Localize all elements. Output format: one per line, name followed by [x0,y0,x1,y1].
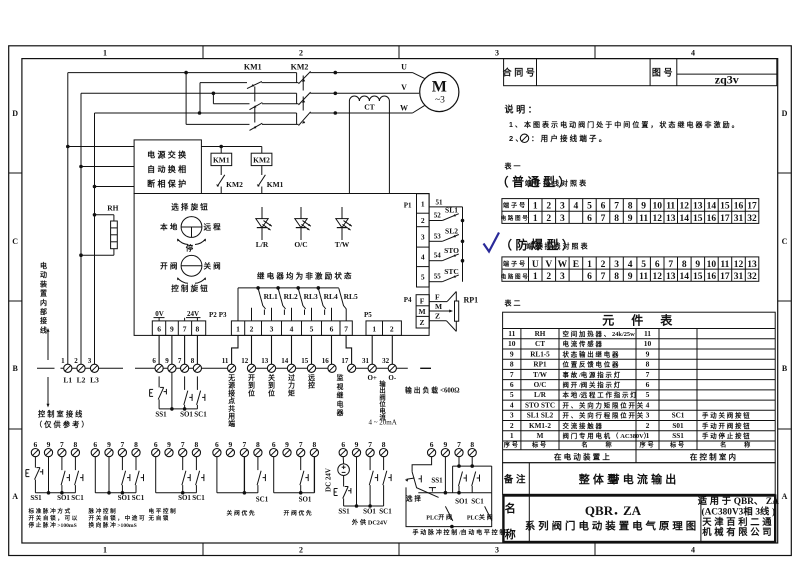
svg-text:线: 线 [40,325,47,334]
svg-text:标号: 标号 [531,441,548,449]
svg-text:24V: 24V [187,310,199,318]
wire limit switch rail [462,207,464,282]
svg-text:停止脉冲>100mS: 停止脉冲>100mS [29,521,77,529]
svg-text:2: 2 [74,357,78,365]
group6 labels [338,508,392,516]
motor M label [432,79,447,106]
group3 open button SO1 [182,457,190,493]
svg-text:6: 6 [215,440,219,449]
svg-text:1: 1 [510,431,514,440]
svg-text:6: 6 [601,202,606,212]
group7 button actuator [429,488,436,492]
svg-text:过: 过 [288,373,295,382]
model QBR ZA [585,503,642,518]
svg-text:SO1: SO1 [180,411,193,419]
contactor coil KM1 [211,153,232,165]
svg-text:称: 称 [744,441,752,449]
svg-text:31: 31 [734,272,744,282]
group7 upper link [453,464,492,492]
svg-text:F: F [420,297,425,306]
svg-text:端: 端 [228,419,235,428]
svg-text:13: 13 [693,202,703,212]
svg-text:称: 称 [606,441,614,449]
group5 label SO1 [299,496,312,504]
svg-text:15: 15 [301,357,309,365]
wire boundary segment d [247,367,336,369]
svg-text:阀: 阀 [379,392,385,401]
svg-text:SS1: SS1 [672,432,684,440]
svg-text:DC 24V: DC 24V [325,468,333,492]
svg-text:31: 31 [362,357,370,365]
svg-text:2: 2 [546,214,551,224]
svg-text:SC1: SC1 [132,494,145,502]
svg-text:O+: O+ [367,374,376,382]
svg-text:CT: CT [364,103,374,112]
svg-text:9: 9 [628,214,633,224]
svg-text:7: 7 [299,440,303,449]
group4 note 关阀优先 [227,509,257,517]
svg-text:内: 内 [40,298,47,307]
svg-text:KM1: KM1 [213,155,230,164]
svg-text:V: V [401,83,407,92]
group7 labels SO1 SC1 [455,498,484,506]
svg-text:2: 2 [250,325,254,334]
svg-text:8: 8 [614,272,619,282]
svg-text:16: 16 [734,202,744,212]
group6 terminals 6 9 7 8 [339,440,388,457]
svg-text:14: 14 [680,272,690,282]
svg-text:表一: 表一 [504,161,523,170]
svg-text:D: D [12,109,18,118]
svg-text:6: 6 [154,440,158,449]
group3 close button SC1 [196,457,204,493]
wire 51 [429,199,462,207]
svg-text:RL2: RL2 [284,292,298,301]
svg-text:点: 点 [228,396,235,405]
svg-text:换向脉冲>100mS: 换向脉冲>100mS [89,521,137,529]
contactor KM1 contact b [250,103,263,110]
wire P3-1 to terminal 11 [232,335,238,364]
svg-text:开关自锁，可以: 开关自锁，可以 [29,514,80,522]
svg-text:L/R: L/R [534,391,547,399]
svg-text:标号: 标号 [669,441,686,449]
svg-text:SO1: SO1 [363,508,376,516]
svg-text:STO STC: STO STC [525,402,555,410]
svg-text:接: 接 [228,388,235,397]
wire subrail 2 [213,93,298,103]
svg-text:7: 7 [668,260,673,270]
svg-text:7: 7 [243,440,247,449]
svg-text:合同号: 合同号 [503,67,538,78]
svg-text:2: 2 [390,325,394,334]
svg-text:关阀: 关阀 [204,260,223,270]
svg-text:SL1: SL1 [445,206,458,215]
svg-text:SC1: SC1 [71,494,84,502]
svg-text:9: 9 [285,440,289,449]
wire subrail 3 [186,73,298,125]
table2 cells [501,260,757,282]
svg-text:端子号: 端子号 [503,260,527,268]
field terminals row [61,357,396,373]
svg-text:5: 5 [421,273,425,282]
indicator lamp L/R [256,207,272,249]
svg-text:7: 7 [60,440,64,449]
svg-text:RH: RH [535,330,546,338]
svg-text:C: C [12,237,18,246]
svg-text:脉冲控制: 脉冲控制 [88,507,118,515]
svg-text:E: E [573,260,579,270]
svg-text:状态输出继电器: 状态输出继电器 [563,349,621,358]
labels SS1 SO1 SC1 (internal) [155,411,207,419]
svg-text:V: V [545,260,552,270]
svg-text:8: 8 [682,260,687,270]
svg-text:8: 8 [382,440,386,449]
group7 bottom bracket [406,487,492,528]
svg-text:电平控制: 电平控制 [149,507,178,515]
node U junctions [184,71,337,75]
svg-text:机械有限公司: 机械有限公司 [702,526,774,537]
close button SC1 (internal) [197,376,205,409]
svg-text:7: 7 [457,440,461,449]
svg-text:PLC关阀: PLC关阀 [467,514,494,522]
group2 wire 9 [108,457,110,493]
note 2 [509,133,608,143]
power box text [147,150,188,189]
label 表二 [504,298,523,307]
svg-text:9: 9 [355,440,359,449]
notes heading 说明 [505,104,540,115]
svg-text:KM1: KM1 [244,63,262,72]
svg-text:KM2: KM2 [291,63,309,72]
group3 labels [178,494,205,502]
svg-text:P3: P3 [219,311,227,319]
svg-text:SC1: SC1 [194,411,207,419]
open button SO1 (internal) [184,376,192,409]
svg-text:SO1: SO1 [118,494,131,502]
label 名称 [505,501,519,541]
svg-text:无: 无 [227,374,235,382]
svg-text:53: 53 [434,232,442,240]
svg-text:Z: Z [435,312,440,321]
group5 wire 6 [273,457,275,493]
svg-text:9: 9 [444,440,448,449]
svg-text:1: 1 [533,272,538,282]
wire L2 feeder [79,93,83,364]
group4 rail [217,491,258,495]
wire P3-7 to terminal 17 [346,335,352,364]
svg-text:9: 9 [628,272,633,282]
arrow control room [47,377,50,408]
svg-text:U: U [401,63,407,72]
blue checkmark [484,233,500,252]
svg-text:阀门专用电机（AC380V）: 阀门专用电机（AC380V） [563,431,652,440]
svg-text:序号: 序号 [639,441,656,449]
svg-text:出: 出 [379,386,385,395]
svg-text:SO1: SO1 [455,498,468,506]
svg-text:6: 6 [646,380,650,389]
svg-text:6: 6 [152,357,156,365]
stop button SS1 (internal) [150,376,167,409]
svg-text:本地/远程工作指示灯: 本地/远程工作指示灯 [563,390,639,399]
svg-text:31: 31 [734,214,744,224]
labels O+ O- [367,374,396,382]
svg-text:标准脉冲方式: 标准脉冲方式 [28,507,72,515]
svg-text:选择旋钮: 选择旋钮 [171,202,210,212]
vertical label 无源接点共用端 [227,374,235,428]
applicability text [698,495,779,518]
svg-text:P5: P5 [364,311,372,319]
group4 wire 6 [216,457,218,493]
connector P4 [404,295,430,328]
svg-text:2: 2 [299,49,303,58]
wire M [429,302,453,313]
svg-text:控制旋钮: 控制旋钮 [171,283,210,293]
svg-text:9: 9 [170,325,174,334]
labels L1 L2 L3 [63,376,99,385]
svg-text:10: 10 [652,202,662,212]
group7 selector arrow [405,478,415,482]
svg-text:13: 13 [666,214,676,224]
relay contact blades RL1-RL5 [258,288,346,309]
svg-text:KM1: KM1 [267,180,284,189]
svg-text:8: 8 [134,440,138,449]
svg-text:电路图号: 电路图号 [501,272,530,280]
connector P3 [219,311,353,335]
remark text 整体型带电流输出 [578,472,680,486]
svg-text:关阀优先: 关阀优先 [227,509,257,517]
svg-text:电: 电 [40,261,47,270]
svg-text:开阀: 开阀 [160,260,179,270]
vertical label 电动装置内部接线 [39,261,47,334]
svg-text:17: 17 [341,357,349,365]
group7 PLC close contact [467,506,494,521]
svg-text:6: 6 [157,325,161,334]
group7 PLC open contact [426,506,453,521]
svg-text:11: 11 [508,329,515,338]
group7 wire 9 [444,457,446,493]
arrow internal wiring [47,328,50,360]
group5 note 开阀优先 [284,509,314,517]
indicator lamp T/W [335,207,352,249]
group6 stop button SS1 [334,476,351,507]
svg-text:空间加热器、24k/25w: 空间加热器、24k/25w [563,329,636,338]
svg-text:SC1: SC1 [192,494,205,502]
svg-text:件: 件 [631,313,646,328]
svg-text:装: 装 [39,279,47,288]
svg-text:监: 监 [337,373,344,382]
group7 selector blade [412,472,439,498]
svg-text:8: 8 [196,325,200,334]
svg-text:图号: 图号 [652,68,675,78]
svg-text:11: 11 [639,272,648,282]
label 合同号 [503,67,538,78]
svg-text:RP1: RP1 [533,361,547,369]
svg-text:16: 16 [707,214,717,224]
svg-text:6: 6 [655,260,660,270]
svg-text:1: 1 [103,49,107,58]
svg-text:12: 12 [241,357,249,365]
svg-text:在电动装置上: 在电动装置上 [554,451,612,461]
svg-text:KM1-2: KM1-2 [529,422,551,430]
svg-text:2: 2 [601,260,606,270]
svg-text:5: 5 [641,260,646,270]
title strip box [504,59,777,86]
svg-text:L3: L3 [90,376,99,385]
wire L1 feeder [66,73,70,365]
svg-text:SC1: SC1 [379,508,392,516]
label 4-20mA [369,419,397,427]
svg-text:M: M [435,302,442,311]
component table footer header row [503,441,752,449]
group6 label DC24V [325,468,333,492]
limit switch STC [429,267,459,282]
wire phase W [95,106,425,113]
svg-text:W: W [558,260,568,270]
svg-text:端子接线对照表: 端子接线对照表 [525,179,588,188]
wire phase U [68,73,425,79]
svg-text:O/C: O/C [294,240,307,249]
svg-text:6: 6 [330,325,334,334]
svg-text:D: D [782,109,788,118]
title 系列阀门电动装置电气原理图 [525,520,699,533]
group3 note [148,507,178,522]
svg-text:KM2: KM2 [253,155,270,164]
svg-text:名: 名 [505,501,519,515]
svg-text:7: 7 [178,357,182,365]
relay contact output wires [252,308,347,321]
group4 terminals 6 9 7 8 [213,440,262,457]
title 防爆型 [500,237,590,252]
wire Z [429,312,456,332]
svg-text:1: 1 [421,199,425,208]
svg-text:到: 到 [268,381,275,390]
svg-text:14: 14 [707,202,717,212]
label 备注 [503,473,529,485]
control knob [181,255,202,276]
svg-text:开阀优先: 开阀优先 [284,509,314,517]
svg-text:S01: S01 [672,422,684,430]
group7 wire 7 [458,457,460,467]
wire internal button rail [159,407,197,411]
svg-text:名: 名 [720,441,728,449]
group7 label SS1 [431,477,443,485]
svg-text:控制室接线: 控制室接线 [38,410,84,419]
svg-text:3: 3 [510,411,514,420]
svg-text:11: 11 [644,329,651,338]
svg-text:6: 6 [587,272,592,282]
potentiometer RP1 [455,292,479,332]
wire boundary segment e [348,367,408,369]
svg-text:1: 1 [533,202,538,212]
svg-text:M: M [418,307,425,316]
svg-text:W: W [400,104,408,113]
group7 label 选择 [406,494,423,503]
wire phase V [81,92,419,94]
note 1 [509,120,741,129]
svg-text:RL5: RL5 [344,292,358,301]
component table header 元件表 [602,313,675,328]
svg-text:端子接线对照表: 端子接线对照表 [526,242,589,251]
svg-text:RL1: RL1 [264,292,278,301]
svg-text:8: 8 [614,214,619,224]
svg-text:4: 4 [628,260,633,270]
wire relay rail [238,288,339,321]
group2 rail [95,491,136,495]
group7 terminals 6 9 7 8 [428,440,477,457]
svg-text:无自锁: 无自锁 [148,514,171,522]
svg-text:1: 1 [587,260,592,270]
group1 rail [35,491,75,495]
label 图号 [652,68,675,78]
svg-text:15: 15 [720,202,730,212]
svg-text:置: 置 [40,289,47,298]
svg-text:远: 远 [308,374,315,382]
wire 9 down (internal) [171,372,173,409]
svg-text:A: A [782,492,788,501]
svg-text:B: B [13,364,19,373]
svg-text:17: 17 [720,214,730,224]
svg-text:器: 器 [336,408,344,417]
group1 open button SO1 [61,457,69,493]
svg-text:P1: P1 [404,202,412,210]
svg-text:停: 停 [186,243,196,253]
component table grid [503,312,776,463]
svg-text:SO1: SO1 [178,494,191,502]
selector knob label [171,202,210,212]
svg-text:系列阀门电动装置电气原理图: 系列阀门电动装置电气原理图 [525,520,699,533]
relay labels RL1-RL5 [264,292,358,301]
svg-text:16: 16 [707,272,717,282]
svg-text:8: 8 [510,360,514,369]
svg-text:开关自锁，中途可: 开关自锁，中途可 [89,514,147,522]
group3 terminals 6 9 7 8 [152,440,201,457]
svg-text:M: M [432,79,447,96]
group2 open button SO1 [122,457,130,493]
svg-text:KM2: KM2 [226,180,243,189]
svg-text:U: U [532,260,539,270]
svg-text:4: 4 [290,325,294,334]
svg-text:Z: Z [419,318,424,327]
svg-text:12: 12 [652,272,662,282]
svg-text:17: 17 [720,272,730,282]
svg-text:8: 8 [470,440,474,449]
group5 open button SO1 [300,457,308,493]
svg-text:位置反馈电位器: 位置反馈电位器 [563,360,621,369]
group4 label SC1 [256,496,269,504]
node W junctions [198,111,337,115]
contactor KM2 label [291,63,309,72]
node V junctions [212,92,338,96]
svg-text:7: 7 [646,370,650,379]
svg-text:开: 开 [248,374,255,382]
group2 terminals 6 9 7 8 [91,440,140,457]
svg-text:1、本图表示电动阀门处于中间位置，状态继电器非激励。: 1、本图表示电动阀门处于中间位置，状态继电器非激励。 [509,120,741,129]
svg-text:开、关向力矩限位开关: 开、关向力矩限位开关 [563,401,646,410]
vertical label 监视继电器 [336,373,344,417]
svg-text:SC1: SC1 [672,412,685,420]
svg-text:1: 1 [533,214,538,224]
svg-text:ZA: ZA [623,503,642,518]
svg-text:备注: 备注 [503,473,529,485]
svg-text:9: 9 [107,440,111,449]
svg-text:SO1: SO1 [299,496,312,504]
control knob arcs [177,277,206,283]
selector knob [181,217,202,238]
svg-text:2: 2 [299,546,303,555]
svg-text:力: 力 [288,381,295,390]
svg-text:B: B [782,364,788,373]
table1 cells [501,202,757,224]
